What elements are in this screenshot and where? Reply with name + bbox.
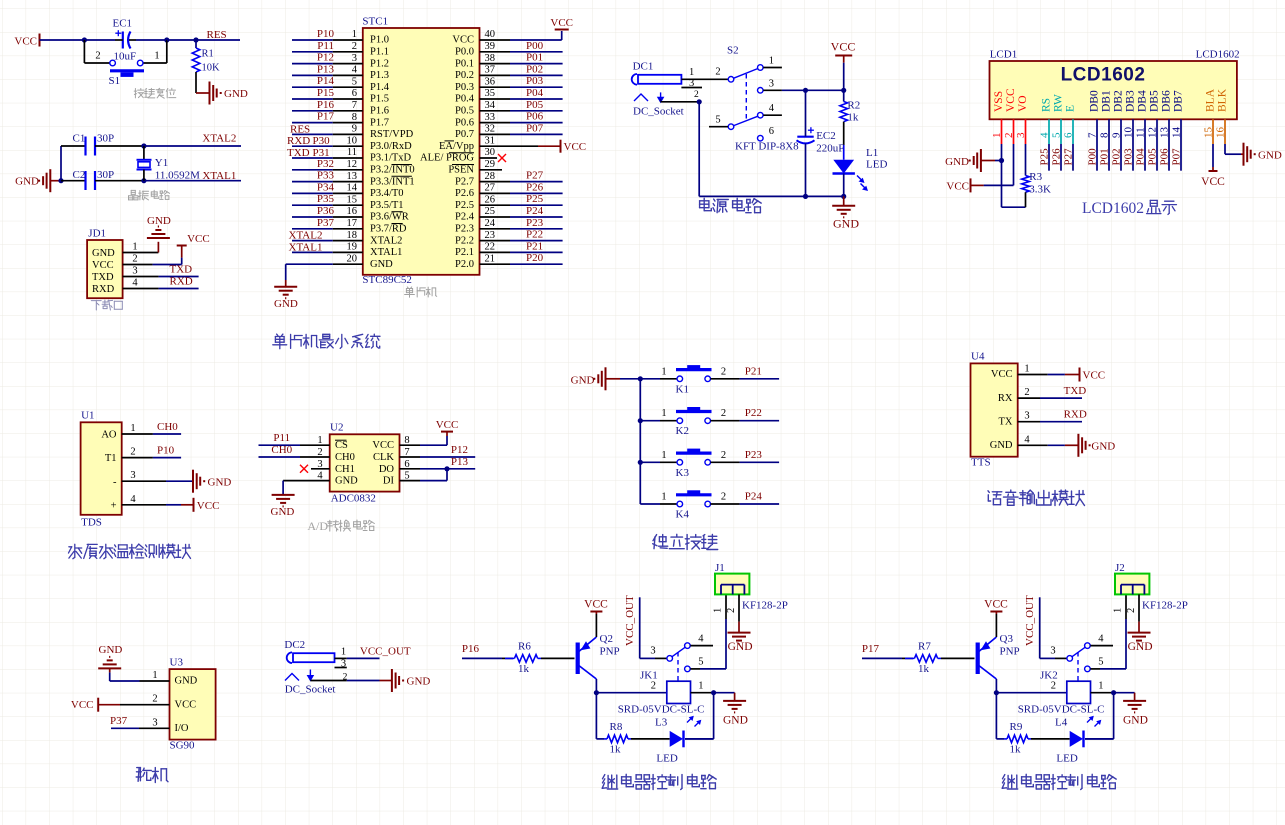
label TTS [971, 457, 991, 469]
svg-text:XTAL1: XTAL1 [202, 170, 236, 182]
pin number 1 (LCD1) [991, 133, 1003, 139]
svg-text:P25: P25 [1039, 148, 1051, 166]
svg-text:1: 1 [769, 56, 774, 67]
wire GND to key bus [606, 378, 641, 380]
svg-text:11.0592M: 11.0592M [155, 170, 200, 182]
relay coil JK2 [1067, 681, 1091, 703]
net label P37 [317, 217, 335, 229]
svg-text:P17: P17 [862, 643, 880, 655]
pin label VO (LCD1) [1017, 95, 1029, 112]
svg-text:1: 1 [991, 133, 1003, 139]
pin label CH1 (U2) [335, 464, 355, 475]
net label P10 [317, 28, 335, 40]
wire node to S1 left [84, 40, 109, 63]
svg-text:DO: DO [379, 464, 395, 475]
LED L1 [833, 160, 855, 174]
power flag VCC (U4) [1080, 368, 1106, 382]
label S2 [727, 45, 739, 57]
pin number 11 (STC1) [347, 147, 357, 158]
wire EC1 to RES node [136, 39, 167, 41]
svg-text:1: 1 [661, 492, 666, 503]
transistor Q3 PNP [976, 637, 997, 679]
junction dot [841, 88, 846, 93]
wire net P34 [292, 192, 363, 194]
wire K1 to P21 [711, 378, 780, 380]
svg-text:P35: P35 [317, 193, 335, 205]
svg-text:7: 7 [352, 100, 357, 111]
pin number 16 (LCD1) [1215, 127, 1227, 139]
wire pin40 to VCC [480, 31, 562, 40]
net label RXD [170, 276, 193, 288]
svg-text:RXD: RXD [92, 284, 115, 295]
section title 继电器控制电路 [1002, 774, 1116, 789]
svg-text:P1.6: P1.6 [370, 106, 389, 117]
svg-text:LCD1602: LCD1602 [1061, 65, 1146, 86]
wire R3 to rail [1025, 192, 1027, 207]
wire U4 pin1 VCC [1018, 374, 1079, 376]
capacitor EC2 [797, 127, 815, 143]
net label P32 [317, 158, 334, 170]
svg-text:J1: J1 [715, 562, 725, 574]
junction dot [638, 460, 643, 465]
pin name P1.4 [370, 82, 390, 93]
pin number 16 (STC1) [347, 206, 358, 217]
svg-text:JK2: JK2 [1040, 670, 1058, 682]
svg-text:VCC: VCC [1005, 88, 1017, 112]
svg-text:6: 6 [769, 126, 774, 137]
wire P25 [1048, 144, 1050, 171]
net label XTAL2 (pin18) [289, 230, 323, 242]
wire R1 to GND [196, 72, 210, 93]
section title 单片机最小系统 [273, 334, 380, 349]
wire collector to R9 [996, 693, 1004, 739]
section title 下载口 [91, 300, 122, 310]
svg-text:P24: P24 [526, 205, 544, 217]
net label P22 [526, 229, 543, 241]
svg-text:20: 20 [347, 253, 358, 264]
svg-text:25: 25 [485, 206, 496, 217]
pin label DO (U2) [379, 464, 395, 475]
pin name P3.3/INT1 [370, 176, 415, 187]
svg-text:P3.1/TxD: P3.1/TxD [370, 153, 412, 164]
svg-text:3: 3 [650, 646, 655, 657]
label U4 [971, 351, 985, 363]
pin number 32 (STC1) [485, 124, 496, 135]
pin stub 7 (LCD1) [1096, 119, 1098, 144]
wire U1 pin1 CH0 [122, 433, 181, 435]
wire DC1 pin1 to S2 pin2 [681, 78, 728, 80]
label LCD1 [990, 49, 1018, 61]
resistor R6 [505, 655, 541, 663]
svg-text:P2.1: P2.1 [455, 247, 474, 258]
wire P27 [1072, 144, 1074, 171]
pin number 33 (STC1) [485, 112, 496, 123]
pin name PSEN [448, 165, 474, 176]
power flag VCC (Q2) [584, 599, 608, 612]
svg-text:2: 2 [721, 408, 726, 419]
wire U2 pin4 GND [283, 481, 330, 495]
svg-text:4: 4 [698, 634, 704, 645]
pin name P1.2 [370, 58, 389, 69]
net label P07 (LCD) [1171, 148, 1183, 166]
svg-text:P1.0: P1.0 [370, 35, 389, 46]
label 10K [202, 63, 221, 74]
svg-text:3: 3 [132, 266, 137, 277]
section title 晶振电路 [129, 190, 170, 200]
pin number 28 (STC1) [485, 171, 496, 182]
svg-text:P2.0: P2.0 [455, 259, 474, 270]
svg-text:VCC: VCC [175, 699, 197, 710]
svg-text:1k: 1k [518, 663, 530, 675]
svg-text:40: 40 [485, 29, 496, 40]
svg-text:5: 5 [1098, 657, 1103, 668]
label R6 [518, 641, 531, 653]
label 11.0592M [155, 170, 200, 182]
pin label RXD (JD1) [92, 284, 115, 295]
svg-text:DB7: DB7 [1173, 90, 1185, 112]
label C2 [73, 169, 86, 181]
wire pin29 stub [480, 169, 503, 171]
pin number 20 (STC1) [347, 253, 358, 264]
svg-text:36: 36 [485, 76, 496, 87]
label R3 [1029, 171, 1042, 183]
pin name P3.4/T0 [370, 188, 404, 199]
svg-text:2: 2 [1126, 608, 1137, 613]
pin number 2 (U3) [152, 694, 157, 705]
svg-text:TTS: TTS [971, 457, 991, 469]
svg-text:13: 13 [347, 171, 358, 182]
svg-text:VCC: VCC [1201, 176, 1225, 188]
svg-text:1: 1 [352, 29, 357, 40]
svg-text:S2: S2 [727, 45, 739, 57]
wire JD1 pin3 TXD [123, 276, 199, 278]
pin number 4 (S2) [769, 103, 775, 114]
wire net P17 [292, 122, 363, 124]
svg-text:DB1: DB1 [1101, 90, 1113, 112]
pin number 9 (STC1) [352, 124, 357, 135]
net label P10 (U1) [157, 445, 175, 457]
pin number 18 (STC1) [347, 230, 358, 241]
svg-text:P05: P05 [526, 99, 544, 111]
pin number 2 (S1) [95, 51, 100, 62]
key switch K2 [676, 407, 712, 424]
svg-text:2: 2 [95, 51, 100, 62]
pin label GND (U2) [335, 476, 358, 487]
svg-text:CH0: CH0 [157, 421, 178, 433]
net label P16 [317, 99, 335, 111]
net label P15 [317, 87, 335, 99]
svg-text:24: 24 [485, 218, 496, 229]
svg-text:GND: GND [407, 676, 431, 688]
label J2 [1115, 562, 1125, 574]
svg-text:J2: J2 [1115, 562, 1125, 574]
pin number 1 (U4) [1024, 364, 1029, 375]
pin number 3 (relay switch JK2) [1050, 646, 1055, 657]
svg-text:GND: GND [1258, 150, 1282, 162]
pin number 39 (STC1) [485, 41, 496, 52]
wire J1 pin2 to GND [738, 594, 740, 632]
pin name P0.4 [455, 94, 475, 105]
svg-text:VCC_OUT: VCC_OUT [1024, 595, 1036, 646]
label R9 [1010, 721, 1023, 733]
pin number 2 (U2, left) [317, 447, 322, 458]
pin name ALE/ PROG [420, 153, 474, 164]
pin name P0.2 [455, 70, 474, 81]
wire U2 pin3 stub [311, 468, 330, 470]
svg-text:P3.5/T1: P3.5/T1 [370, 200, 404, 211]
wire K2 to P22 [711, 420, 780, 422]
svg-text:U4: U4 [971, 351, 985, 363]
wire P16 to R6 [462, 657, 513, 659]
resistor R3 [1022, 176, 1030, 193]
svg-text:P02: P02 [526, 63, 543, 75]
net label P26 (LCD) [1051, 148, 1063, 166]
svg-text:VCC: VCC [550, 17, 573, 29]
svg-text:2: 2 [1051, 681, 1056, 692]
svg-text:P0.5: P0.5 [455, 106, 474, 117]
connector JD1 [87, 240, 123, 298]
svg-text:DC_Socket: DC_Socket [633, 106, 684, 118]
svg-text:ADC0832: ADC0832 [331, 493, 376, 505]
junction dot [697, 99, 702, 104]
wire net P06 [480, 122, 563, 124]
svg-text:21: 21 [485, 253, 496, 264]
svg-text:XTAL2: XTAL2 [202, 133, 236, 145]
net label P00 [526, 40, 544, 52]
pin number 1 (K4) [661, 492, 666, 503]
svg-text:P3.4/T0: P3.4/T0 [370, 188, 404, 199]
pin label TXD (JD1) [92, 272, 114, 283]
svg-text:TXD: TXD [170, 264, 193, 276]
svg-text:RES: RES [290, 123, 310, 135]
net label P23 [526, 217, 544, 229]
wire net RXD P30 [292, 145, 363, 147]
junction dot [594, 690, 599, 695]
section title 独立按键 [653, 534, 718, 549]
svg-text:Q2: Q2 [600, 633, 613, 645]
net label RES (pin9) [290, 123, 310, 135]
svg-text:KF128-2P: KF128-2P [742, 600, 788, 612]
wire node to S1 right [144, 40, 167, 63]
pin number 1 (K2) [661, 408, 666, 419]
svg-text:DC2: DC2 [284, 639, 305, 651]
pin label AO [101, 430, 117, 441]
svg-text:DI: DI [383, 476, 395, 487]
label EC2 [816, 130, 836, 142]
crystal Y1 [137, 146, 152, 181]
junction dot [711, 690, 716, 695]
svg-text:RX: RX [998, 393, 1013, 404]
net label P24 [526, 205, 544, 217]
pin number 4 (JD1) [132, 278, 138, 289]
pin number 4 (U4) [1024, 434, 1030, 445]
pin label DB3 (LCD1) [1125, 90, 1137, 112]
wire node to R2 [843, 90, 845, 101]
net label XTAL2 [202, 133, 236, 145]
pin name P1.6 [370, 106, 389, 117]
svg-text:P36: P36 [317, 205, 335, 217]
wire LCD pin2 VCC [971, 144, 1014, 185]
svg-text:JK1: JK1 [640, 670, 658, 682]
svg-text:GND: GND [990, 440, 1013, 451]
power ground GND (reset) [210, 82, 248, 105]
svg-text:GND: GND [723, 715, 748, 727]
section title 水质水温检测模块 [69, 544, 191, 559]
svg-text:3: 3 [152, 717, 157, 728]
label R1 [202, 49, 214, 60]
earth ground (power circuit) [832, 206, 859, 231]
junction dot [638, 418, 643, 423]
wire LCD pin1 VSS [1002, 144, 1026, 207]
power flag VCC (U1) [194, 498, 220, 512]
label S1 [109, 75, 121, 87]
svg-text:10uF: 10uF [114, 51, 137, 63]
svg-text:SRD-05VDC-SL-C: SRD-05VDC-SL-C [1018, 704, 1105, 716]
svg-text:VCC: VCC [984, 599, 1008, 611]
pin number 2 (STC1) [352, 41, 357, 52]
pin number 9 (LCD1) [1111, 132, 1123, 138]
svg-text:39: 39 [485, 41, 496, 52]
switch S2 pin6 circle [758, 135, 764, 141]
svg-text:3: 3 [130, 470, 135, 481]
pin name P0.0 [455, 47, 474, 58]
svg-text:4: 4 [1039, 132, 1051, 138]
net label P16 [462, 643, 480, 655]
wire U3 pin2 VCC [98, 704, 169, 706]
svg-text:P20: P20 [526, 252, 544, 264]
svg-text:11: 11 [347, 147, 357, 158]
power flag VCC (LCD left) [946, 178, 970, 192]
svg-text:R1: R1 [202, 49, 214, 60]
svg-text:10: 10 [1123, 127, 1135, 139]
svg-text:VCC: VCC [436, 419, 459, 431]
pin label VSS (LCD1) [993, 91, 1005, 112]
wire net P03 [480, 86, 563, 88]
pin number 5 (relay switch JK2) [1098, 657, 1103, 668]
svg-text:4: 4 [352, 65, 358, 76]
key switch K4 [676, 490, 712, 507]
title LCD1602 inside [1061, 65, 1146, 86]
svg-text:DB6: DB6 [1161, 90, 1173, 112]
earth ground (relay JK1) [723, 701, 748, 727]
wire pin4 stub (JK1) [690, 645, 713, 647]
svg-text:1: 1 [1113, 608, 1124, 613]
svg-text:1: 1 [1098, 681, 1103, 692]
svg-text:R7: R7 [918, 641, 931, 653]
pin number 5 (U2, right) [404, 471, 409, 482]
svg-text:27: 27 [485, 183, 496, 194]
wire LCD pin15 to VCC [1212, 144, 1214, 171]
pin name GND [370, 259, 393, 270]
svg-text:35: 35 [485, 88, 496, 99]
pin label DB0 (LCD1) [1089, 90, 1101, 112]
svg-text:P1.3: P1.3 [370, 70, 389, 81]
pin number 1 (S2) [769, 56, 774, 67]
svg-text:GND: GND [370, 259, 393, 270]
wire VCC to EC1 [40, 39, 116, 41]
wire net P27 [480, 181, 563, 183]
pin stub 12 (LCD1) [1156, 119, 1158, 144]
svg-text:2: 2 [651, 681, 656, 692]
LED L3 arrows [687, 716, 701, 727]
svg-text:9: 9 [352, 124, 357, 135]
svg-text:12: 12 [1147, 127, 1159, 138]
pin number 1 (K1) [661, 366, 666, 377]
wire net P35 [292, 204, 363, 206]
svg-text:P0.2: P0.2 [455, 70, 474, 81]
pin number 5 (STC1) [352, 76, 357, 87]
section title 电源电路 [700, 198, 762, 212]
pin number 3 (U3) [152, 717, 157, 728]
wire R6 to base [541, 657, 575, 659]
junction dot [999, 158, 1004, 163]
wire net P25 [480, 204, 563, 206]
pin number 29 (STC1) [485, 159, 496, 170]
wire P06 (LCD) [1168, 144, 1170, 171]
svg-text:2: 2 [721, 492, 726, 503]
svg-text:P1.5: P1.5 [370, 94, 389, 105]
pin label DB4 (LCD1) [1137, 90, 1149, 112]
svg-text:4: 4 [130, 494, 136, 505]
pin number 12 (LCD1) [1147, 127, 1159, 138]
junction dot [164, 37, 169, 42]
pin number 7 (STC1) [352, 100, 357, 111]
wire P05 (LCD) [1156, 144, 1158, 171]
svg-text:VCC: VCC [564, 141, 587, 153]
pin number 4 (U1) [130, 494, 136, 505]
pin label BLA (LCD1) [1205, 88, 1217, 112]
pin label RX (U4) [998, 393, 1013, 404]
svg-text:15: 15 [1203, 127, 1215, 139]
svg-text:28: 28 [485, 171, 496, 182]
svg-text:TXD: TXD [92, 272, 114, 283]
svg-text:2: 2 [130, 447, 135, 458]
svg-text:ALE/ PROG: ALE/ PROG [420, 153, 474, 164]
svg-text:4: 4 [1098, 634, 1104, 645]
svg-text:5: 5 [715, 115, 720, 126]
wire U1 pin3 GND [122, 480, 193, 482]
wire U3 pin3 P37 [111, 727, 170, 729]
net label RXD (U4) [1064, 409, 1087, 421]
pin name P1.3 [370, 70, 389, 81]
svg-text:R8: R8 [610, 721, 623, 733]
pin number 3 (DC1) [689, 78, 694, 89]
pin number 5 (S2) [715, 115, 720, 126]
label LCD1602 (type) [1196, 49, 1240, 61]
label 单片机 [405, 287, 437, 297]
pin stub 15 (LCD1) [1212, 119, 1214, 144]
wire J2 pin2 to GND [1138, 594, 1140, 632]
power flag VCC (U3) [71, 698, 98, 712]
svg-text:30: 30 [485, 147, 496, 158]
junction dot [803, 88, 808, 93]
pin name P3.1/TxD [370, 153, 412, 164]
svg-text:TXD: TXD [1064, 385, 1087, 397]
LCD1 body [990, 61, 1237, 119]
pin number 2 (JK2) [1051, 681, 1056, 692]
svg-text:E: E [1065, 105, 1077, 112]
svg-text:5: 5 [1051, 132, 1063, 138]
svg-text:VCC: VCC [71, 699, 94, 711]
svg-text:DB4: DB4 [1137, 90, 1149, 112]
pin number 1 (K3) [661, 450, 666, 461]
svg-text:P34: P34 [317, 181, 335, 193]
svg-text:P30: P30 [313, 135, 331, 147]
net label RES [207, 29, 227, 41]
svg-text:P25: P25 [526, 193, 544, 205]
net label P11 [273, 432, 290, 444]
net label P07 [526, 122, 544, 134]
